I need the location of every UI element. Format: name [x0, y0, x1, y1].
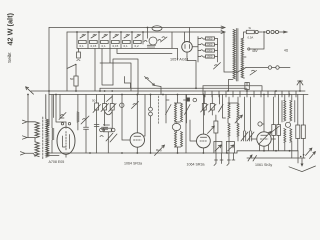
junction JB5	[120, 31, 122, 33]
svg-text:0,2: 0,2	[135, 44, 140, 48]
resistor R14	[95, 103, 99, 110]
svg-text:2000: 2000	[207, 37, 213, 41]
B+ distribution wires	[117, 49, 172, 54]
coil L1	[28, 122, 39, 138]
coil L2	[28, 138, 39, 157]
junction J11	[195, 87, 197, 89]
bottom bus	[47, 152, 237, 154]
svg-text:1057 AG11: 1057 AG11	[170, 58, 189, 62]
mid bus y88	[100, 87, 247, 89]
junction J20	[27, 94, 29, 96]
junction J30	[289, 150, 291, 152]
transformer T1 secondary taps	[244, 32, 247, 78]
V2 pins	[65, 122, 67, 157]
coupling caps right of V3	[149, 107, 153, 111]
svg-text:Si: Si	[249, 26, 252, 30]
trimmer at V2 grid	[59, 113, 66, 120]
junction J19	[55, 94, 57, 96]
choke under M	[148, 46, 154, 49]
trimmer right of M	[161, 37, 168, 42]
junction J4	[104, 90, 106, 92]
junction J1	[48, 90, 50, 92]
caps below bus with arrows	[214, 153, 223, 166]
triode V2 oval	[57, 127, 75, 154]
wire left frame vertical	[47, 28, 50, 128]
wire resistor to bus1	[75, 86, 77, 91]
junction J15	[263, 94, 265, 96]
grid condenser circle	[120, 103, 124, 107]
second choke pair	[228, 123, 230, 136]
bracket of dropper resistors right of V1	[198, 37, 218, 63]
junction JB8	[147, 27, 149, 29]
arrow at V5	[259, 132, 272, 145]
rheostat arrow	[145, 77, 162, 95]
wire V1 cathode to bus	[187, 57, 196, 89]
speaker	[289, 166, 316, 172]
svg-text:1064 SR3a: 1064 SR3a	[187, 163, 205, 167]
junction dot	[263, 31, 265, 33]
tube V4	[197, 134, 211, 148]
trimmer caps x244 x250	[241, 131, 248, 141]
svg-text:1064 SR3a: 1064 SR3a	[124, 162, 142, 166]
arrow at V4	[208, 126, 215, 133]
resistor R16	[110, 104, 114, 111]
comb ticks on bus2	[205, 91, 296, 97]
svg-text:45V: 45V	[252, 49, 259, 53]
wire inner left vertical	[66, 32, 68, 91]
wire drops from bus B	[77, 32, 143, 48]
transformer T1 primary	[233, 30, 235, 79]
wire x205	[202, 86, 204, 95]
grid circle left of V5	[258, 122, 262, 126]
fuse F1	[246, 30, 254, 33]
junction JB2	[87, 31, 89, 33]
svg-text:A708 E05: A708 E05	[49, 160, 65, 164]
main bus 2	[49, 94, 308, 96]
coil L3 secondary	[46, 95, 49, 157]
capacitor C6	[102, 127, 108, 131]
svg-text:0,1: 0,1	[124, 44, 129, 48]
wire x145	[144, 95, 145, 137]
junction J27	[226, 152, 228, 154]
switch arrow below bus	[107, 96, 113, 101]
junction J16	[275, 90, 277, 92]
junction J21	[89, 152, 91, 154]
svg-text:5000: 5000	[103, 123, 110, 127]
junction J29	[275, 150, 277, 152]
wire x53.6	[53, 95, 55, 118]
resistor R3	[101, 40, 109, 43]
wire T1 bottom to bus	[229, 80, 234, 92]
junction JB4	[109, 31, 111, 33]
main bus 1	[31, 90, 305, 92]
svg-text:4Ω: 4Ω	[284, 49, 289, 53]
resistor R13 zigzag	[52, 95, 54, 154]
resistor RB3 row	[198, 50, 218, 52]
junction J17	[289, 94, 291, 96]
junction J5	[111, 90, 113, 92]
grid resistors above V4	[202, 104, 206, 111]
terminal circles	[255, 30, 258, 33]
junction J10	[177, 94, 179, 96]
resistor R12 with arrow	[250, 70, 257, 75]
svg-text:1500: 1500	[207, 55, 213, 59]
band switch	[219, 105, 224, 113]
rectifier tube V1	[182, 42, 193, 53]
staircase wire	[125, 77, 131, 89]
junction J24	[150, 152, 152, 154]
capacitor C5	[84, 95, 89, 154]
trimmer under bracket	[214, 63, 221, 70]
trimmer arrows above chain	[80, 35, 86, 39]
svg-text:42 W (alt): 42 W (alt)	[5, 12, 14, 45]
resistor zigzag x77	[77, 95, 79, 131]
motor M symbol	[149, 37, 157, 45]
svg-text:50: 50	[70, 77, 74, 81]
wire to speaker	[297, 151, 299, 163]
junction J7	[136, 94, 138, 96]
svg-text:Reg: Reg	[156, 148, 162, 152]
antenna terminal A2	[22, 136, 28, 139]
tube V5	[257, 132, 271, 146]
junction J3	[99, 90, 101, 92]
wires above V2	[56, 95, 66, 123]
svg-text:1061 Sh3y: 1061 Sh3y	[255, 163, 272, 167]
svg-text:0,15: 0,15	[91, 44, 97, 48]
wire antenna vertical	[27, 95, 29, 138]
resistor R11 vertical	[77, 52, 81, 58]
resistor RB2 row	[198, 44, 218, 46]
junction J8	[150, 94, 152, 96]
svg-text:2000: 2000	[207, 43, 213, 47]
junction J12	[203, 94, 205, 96]
up arrow symbol	[297, 81, 303, 92]
wire drop to 45V tap	[250, 32, 264, 49]
transformer T1 secondary	[241, 38, 243, 78]
resistor R15	[103, 104, 107, 111]
svg-text:0,1: 0,1	[80, 44, 85, 48]
lamp oval on bus A	[152, 26, 162, 31]
lower coil pair	[284, 129, 286, 143]
resistor R5	[123, 40, 131, 43]
resistor RB1 row	[198, 38, 218, 40]
choke coils x228/x237	[228, 103, 230, 118]
trimmer arrows below	[100, 133, 117, 142]
svg-text:0,5A: 0,5A	[248, 36, 254, 40]
resistor boxes right column	[296, 125, 300, 139]
resistor RB4 row	[198, 56, 218, 58]
resistor R2	[90, 40, 98, 43]
interstage box	[214, 121, 218, 133]
resistor R4	[112, 40, 120, 43]
junction J13	[227, 90, 229, 92]
wire top bus A	[49, 27, 224, 29]
junction J26	[203, 152, 205, 154]
switch S1	[67, 65, 76, 69]
junction J2	[75, 90, 77, 92]
resistor R10 vertical box	[74, 76, 78, 86]
grid leak with end caps	[100, 128, 103, 131]
junction J28	[263, 150, 265, 152]
IF transformer assembly	[166, 100, 187, 123]
rail under chain	[77, 48, 178, 50]
junction blob	[186, 98, 190, 102]
band switches	[166, 105, 191, 115]
staple loops above bottom bus	[214, 142, 222, 154]
shield dashed line	[158, 96, 160, 124]
circle between coils	[285, 122, 290, 127]
svg-text:0,15: 0,15	[113, 44, 119, 48]
title text Seibt 42 W (alt)	[5, 12, 14, 63]
resistor R6	[134, 40, 142, 43]
wire top bus B	[67, 31, 224, 33]
switch arm on T1	[237, 68, 246, 73]
wire drop x172	[171, 32, 173, 48]
junction J18	[299, 90, 301, 92]
junction J22	[121, 152, 123, 154]
junction J23	[136, 152, 138, 154]
variometer blob	[172, 123, 180, 130]
wire x122	[122, 95, 130, 141]
pot arrow Reg	[155, 145, 165, 155]
svg-text:0,1: 0,1	[102, 44, 107, 48]
junction J14	[246, 90, 248, 92]
junction JB1	[76, 31, 78, 33]
junction JB6	[131, 31, 133, 33]
wire from bus A to M	[147, 28, 149, 39]
svg-text:5000: 5000	[207, 49, 213, 53]
pot arrow mid	[235, 115, 242, 123]
junction J6	[121, 94, 123, 96]
trimmer arrow over V3 feed	[132, 102, 139, 109]
second IF coil pair	[175, 132, 177, 147]
wire switch to resistor	[75, 65, 77, 77]
svg-text:50: 50	[92, 99, 96, 103]
svg-text:Seibt: Seibt	[7, 52, 12, 63]
electrolytics right of V5	[272, 125, 276, 136]
pot arrow on bus1 left	[26, 87, 34, 94]
wire y67 with plugs	[246, 67, 290, 69]
core dashed	[42, 117, 44, 159]
transformer T1 core	[236, 29, 238, 82]
junction J25	[177, 152, 179, 154]
junction JB7	[142, 31, 144, 33]
output transformer L5	[284, 101, 286, 122]
antenna terminal E	[20, 152, 33, 155]
V5 side pins	[260, 145, 269, 151]
arrow on bus B	[221, 31, 225, 34]
capacitor C5b	[94, 125, 99, 127]
junction JB3	[98, 31, 100, 33]
wire bus end down	[224, 32, 237, 72]
trimmer C at x86	[81, 116, 89, 124]
loop below R15 R16	[105, 112, 113, 115]
resistor R1	[79, 40, 87, 43]
arrow on bus A	[221, 26, 225, 29]
tube V3	[130, 133, 144, 147]
antenna terminal A1	[22, 120, 28, 123]
arrows near right bus	[248, 155, 257, 161]
junction J9	[162, 94, 164, 96]
